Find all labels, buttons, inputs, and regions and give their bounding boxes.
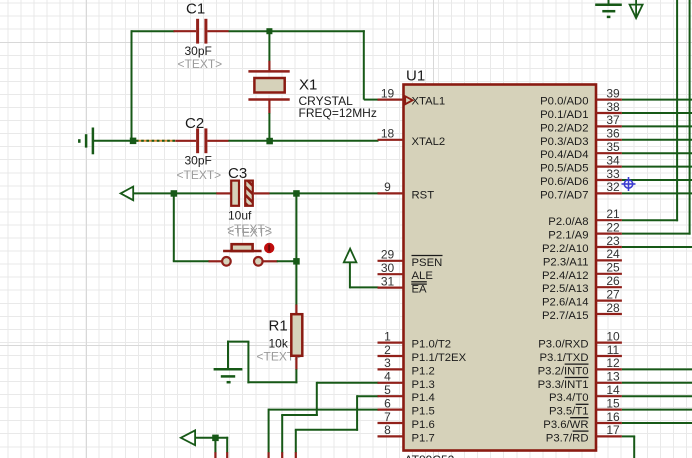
- svg-text:16: 16: [606, 410, 620, 424]
- svg-text:30pF: 30pF: [185, 154, 212, 168]
- svg-text:C2: C2: [185, 115, 204, 132]
- pin 17 (P3.7/RD) stub: [596, 435, 622, 437]
- pin 26 (P2.5/A13) stub: [596, 286, 622, 288]
- svg-text:10k: 10k: [269, 337, 289, 351]
- svg-text:29: 29: [381, 248, 395, 262]
- svg-text:10uf: 10uf: [228, 209, 252, 223]
- push button: [209, 243, 278, 266]
- wire button left branch horizontal: [173, 260, 210, 262]
- svg-text:P3.4/T0: P3.4/T0: [549, 392, 589, 404]
- svg-text:EA: EA: [412, 284, 428, 296]
- wire P1.5 net: [269, 409, 379, 453]
- overline RD: [573, 430, 589, 432]
- power arrow down top right: [630, 0, 643, 18]
- pin 10 (P3.0/RXD) stub: [596, 342, 622, 344]
- svg-text:12: 12: [606, 356, 620, 370]
- svg-text:ALE: ALE: [412, 270, 434, 282]
- pin 27 (P2.6/A14) stub: [596, 300, 622, 302]
- wire top net C1 left segment: [132, 30, 175, 32]
- pin 6 (P1.5) stub: [378, 409, 404, 411]
- pin 11 (P3.1/TXD) stub: [596, 355, 622, 357]
- wire button left branch vertical: [173, 193, 175, 261]
- svg-text:P0.3/AD3: P0.3/AD3: [540, 136, 588, 148]
- wire P2.1 net: [622, 0, 691, 235]
- svg-text:P1.1/T2EX: P1.1/T2EX: [412, 352, 467, 364]
- svg-text:35: 35: [606, 140, 620, 154]
- svg-text:P2.7/A15: P2.7/A15: [542, 310, 588, 322]
- svg-text:22: 22: [606, 220, 620, 234]
- wire crystal top lead green: [268, 31, 270, 61]
- wire bottom arrow net horizontal: [195, 437, 228, 439]
- svg-text:U1: U1: [406, 67, 425, 84]
- pin 3 (P1.2) stub: [378, 368, 404, 370]
- wires P0 bus to right edge: [622, 100, 692, 194]
- overline INT1: [565, 377, 589, 379]
- svg-text:10: 10: [606, 329, 620, 343]
- ground symbol (R1): [214, 369, 243, 382]
- svg-text:4: 4: [384, 370, 391, 384]
- junction RST net / R1 branch: [293, 190, 300, 197]
- svg-text:P0.4/AD4: P0.4/AD4: [540, 149, 588, 161]
- pin 5 (P1.4) stub: [378, 395, 404, 397]
- pin tip P1.5 drop: [268, 452, 270, 458]
- wire RST net: arrow to C3: [133, 192, 217, 194]
- svg-text:34: 34: [606, 153, 620, 167]
- wire EA net horizontal to pin 31: [350, 286, 379, 288]
- svg-text:28: 28: [606, 301, 620, 315]
- wire P3.7 net elbow: [622, 436, 635, 458]
- junction crystal bottom on XTAL2 net: [266, 138, 273, 145]
- pin 8 (P1.7) stub: [378, 435, 404, 437]
- svg-text:37: 37: [606, 113, 620, 127]
- svg-text:18: 18: [381, 127, 395, 141]
- svg-text:C3: C3: [228, 165, 247, 182]
- svg-text:P2.6/A14: P2.6/A14: [542, 297, 588, 309]
- input arrow terminal (bottom net): [181, 430, 195, 445]
- wire XTAL2 net: C2 to pin 18: [228, 140, 378, 142]
- svg-text:24: 24: [606, 247, 620, 261]
- svg-text:3: 3: [384, 356, 391, 370]
- svg-text:P3.1/TXD: P3.1/TXD: [540, 352, 589, 364]
- svg-text:26: 26: [606, 274, 620, 288]
- wire crystal bottom lead green: [268, 113, 270, 141]
- svg-text:R1: R1: [269, 318, 288, 335]
- pin 32 (P0.7/AD7) stub: [596, 192, 622, 194]
- svg-text:PSEN: PSEN: [412, 257, 443, 269]
- pin tip P1.4 drop: [295, 452, 297, 458]
- wire top net C1 right segment to XTAL1 corner: [228, 30, 364, 32]
- svg-text:<TEXT>: <TEXT>: [178, 57, 223, 71]
- wire P2.0 net: [622, 0, 678, 221]
- junction button / R1 vertical: [293, 258, 300, 265]
- capacitor C1: [174, 19, 229, 44]
- wire P2.2 net: [622, 246, 692, 248]
- svg-text:P1.7: P1.7: [412, 432, 435, 444]
- pin 34 (P0.5/AD5) stub: [596, 166, 622, 168]
- junction RST net / button branch: [171, 190, 178, 197]
- pin 18 (XTAL2) stub: [378, 139, 404, 141]
- wire R1 bottom to ground run: [227, 341, 297, 384]
- pin 19 (XTAL1) stub: [378, 98, 404, 100]
- svg-text:P2.4/A12: P2.4/A12: [542, 270, 588, 282]
- svg-text:9: 9: [384, 180, 391, 194]
- svg-text:XTAL2: XTAL2: [412, 136, 446, 148]
- pin 23 (P2.2/A10) stub: [596, 246, 622, 248]
- pin 15 (P3.5/T1) stub: [596, 409, 622, 411]
- resistor R1: [291, 305, 302, 370]
- svg-text:P3.0/RXD: P3.0/RXD: [538, 339, 588, 351]
- overline INT0: [565, 363, 589, 365]
- junction top net / crystal top: [266, 28, 272, 34]
- svg-text:19: 19: [381, 86, 395, 100]
- pin 39 (P0.0/AD0) stub: [596, 98, 622, 100]
- pin 7 (P1.6) stub: [378, 422, 404, 424]
- capacitor C3 (electrolytic): [216, 176, 269, 231]
- overline T1: [576, 403, 589, 405]
- svg-text:11: 11: [607, 343, 620, 357]
- wire R1 top branch vertical: [295, 193, 297, 305]
- junction bottom arrow net: [212, 435, 219, 442]
- svg-text:30: 30: [381, 261, 395, 275]
- svg-text:P3.6/WR: P3.6/WR: [543, 419, 588, 431]
- pin 21 (P2.0/A8) stub: [596, 219, 622, 221]
- svg-text:P2.0/A8: P2.0/A8: [548, 216, 588, 228]
- svg-text:P1.5: P1.5: [412, 406, 435, 418]
- svg-text:6: 6: [384, 396, 391, 410]
- svg-text:32: 32: [606, 180, 620, 194]
- svg-text:P0.0/AD0: P0.0/AD0: [540, 96, 588, 108]
- pin tip P1.3 drop: [281, 452, 283, 458]
- svg-text:P1.4: P1.4: [412, 392, 435, 404]
- ground symbol top right: [595, 0, 622, 17]
- svg-text:P0.7/AD7: P0.7/AD7: [540, 189, 588, 201]
- svg-text:P0.2/AD2: P0.2/AD2: [540, 122, 588, 134]
- wire P1.4 net: [295, 395, 379, 453]
- pin 28 (P2.7/A15) stub: [596, 313, 622, 315]
- overline WR: [570, 417, 588, 419]
- pin 37 (P0.2/AD2) stub: [596, 125, 622, 127]
- junction C1 branch on XTAL2 net: [130, 138, 137, 145]
- svg-text:36: 36: [606, 127, 620, 141]
- svg-text:P1.2: P1.2: [412, 365, 435, 377]
- svg-text:P1.6: P1.6: [412, 419, 435, 431]
- svg-text:21: 21: [606, 207, 620, 221]
- svg-text:17: 17: [606, 423, 620, 437]
- svg-text:14: 14: [606, 383, 620, 397]
- svg-text:P2.2/A10: P2.2/A10: [542, 243, 588, 255]
- pin 33 (P0.6/AD6) stub: [596, 179, 622, 181]
- svg-text:C1: C1: [186, 1, 205, 18]
- svg-text:27: 27: [606, 287, 620, 301]
- svg-text:P1.3: P1.3: [412, 379, 435, 391]
- svg-text:P0.1/AD1: P0.1/AD1: [540, 109, 588, 121]
- svg-text:<TEXT>: <TEXT>: [228, 226, 273, 240]
- svg-text:33: 33: [606, 167, 620, 181]
- wire vertical into XTAL1: [363, 30, 365, 99]
- pin 24 (P2.3/A11) stub: [596, 259, 622, 261]
- wire button right to R1 branch: [277, 260, 297, 262]
- pin 36 (P0.3/AD3) stub: [596, 139, 622, 141]
- svg-text:30pF: 30pF: [185, 44, 212, 58]
- power arrow (EA net): [344, 249, 357, 263]
- svg-text:1: 1: [384, 329, 391, 343]
- input arrow terminal (RST net): [121, 187, 134, 201]
- capacitor C2: [175, 128, 228, 153]
- svg-text:X1: X1: [299, 77, 317, 94]
- wire XTAL1 horizontal to pin: [364, 99, 379, 101]
- pin 16 (P3.6/WR) stub: [596, 422, 622, 424]
- wire P1.3 net: [281, 382, 378, 453]
- svg-text:23: 23: [606, 234, 620, 248]
- wire drop at x227: [226, 437, 228, 453]
- svg-text:38: 38: [606, 100, 620, 114]
- pin tip at x227: [226, 452, 228, 458]
- svg-text:P0.5/AD5: P0.5/AD5: [540, 163, 588, 175]
- wire XTAL2 net: ground to junction: [93, 140, 133, 142]
- cursor crosshair: [622, 177, 636, 191]
- pin 25 (P2.4/A12) stub: [596, 273, 622, 275]
- svg-text:XTAL1: XTAL1: [412, 96, 446, 108]
- pin 29 (PSEN) stub: [378, 260, 404, 262]
- svg-text:39: 39: [606, 86, 620, 100]
- svg-text:FREQ=12MHz: FREQ=12MHz: [299, 106, 377, 120]
- svg-text:25: 25: [606, 261, 620, 275]
- pin 22 (P2.1/A9) stub: [596, 233, 622, 235]
- crystal X1: [248, 61, 289, 114]
- svg-text:2: 2: [384, 343, 391, 357]
- svg-text:P3.2/INT0: P3.2/INT0: [538, 365, 589, 377]
- svg-text:P2.3/A11: P2.3/A11: [543, 256, 589, 268]
- svg-text:P3.5/T1: P3.5/T1: [549, 406, 589, 418]
- pin 2 (P1.1/T2EX) stub: [378, 355, 404, 357]
- svg-text:15: 15: [606, 396, 620, 410]
- svg-text:13: 13: [606, 370, 620, 384]
- pin 12 (P3.2/INT0) stub: [596, 368, 622, 370]
- pin 9 (RST) stub: [378, 192, 404, 194]
- ground symbol left (rotated): [79, 128, 93, 155]
- pin 38 (P0.1/AD1) stub: [596, 112, 622, 114]
- wire drop at x215: [214, 438, 216, 453]
- svg-text:31: 31: [381, 274, 395, 288]
- pin 14 (P3.4/T0) stub: [596, 395, 622, 397]
- pin 13 (P3.3/INT1) stub: [596, 382, 622, 384]
- svg-text:5: 5: [384, 383, 391, 397]
- svg-text:P1.0/T2: P1.0/T2: [412, 339, 452, 351]
- wires P3.2-P3.6 nets to right edge: [622, 369, 692, 423]
- pin 1 (P1.0/T2) stub: [378, 342, 404, 344]
- pin 31 (EA) stub: [378, 287, 404, 289]
- svg-text:P3.7/RD: P3.7/RD: [546, 432, 589, 444]
- svg-text:AT89C52: AT89C52: [405, 453, 455, 458]
- wire XTAL2 net dashed overlap segment: [136, 140, 175, 142]
- wire left vertical C1 to C2: [131, 30, 133, 141]
- wire RST net: C3 to pin 9: [270, 192, 379, 194]
- svg-text:<TEXT>: <TEXT>: [177, 168, 222, 182]
- svg-text:P2.1/A9: P2.1/A9: [548, 230, 588, 242]
- svg-text:P2.5/A13: P2.5/A13: [542, 283, 588, 295]
- pin 4 (P1.3) stub: [378, 382, 404, 384]
- pin tip at x215: [214, 452, 216, 458]
- svg-text:8: 8: [384, 423, 391, 437]
- svg-text:P3.3/INT1: P3.3/INT1: [538, 379, 589, 391]
- pin 35 (P0.4/AD4) stub: [596, 152, 622, 154]
- svg-text:P0.6/AD6: P0.6/AD6: [540, 176, 588, 188]
- IC U1 body: [404, 85, 597, 451]
- wire EA net vertical: [349, 262, 351, 289]
- svg-text:7: 7: [384, 410, 391, 424]
- XTAL1 clock symbol: [405, 96, 412, 104]
- pin 30 (ALE) stub: [378, 273, 404, 275]
- svg-text:RST: RST: [412, 189, 435, 201]
